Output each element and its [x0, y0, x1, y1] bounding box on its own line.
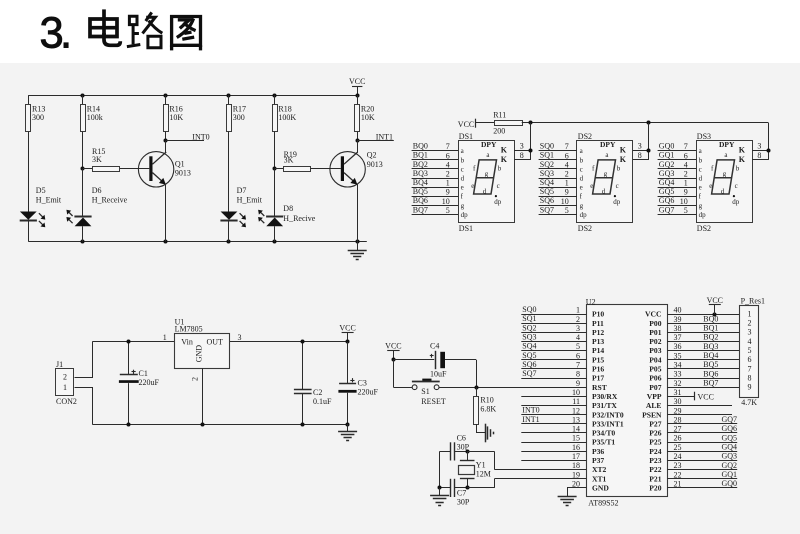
- svg-text:K: K: [739, 146, 746, 155]
- svg-text:7: 7: [748, 364, 752, 373]
- pin wire SQ1 pin 6 of DS2: [539, 159, 577, 161]
- svg-text:c: c: [699, 165, 702, 173]
- junction dots display rail: [529, 121, 533, 125]
- svg-text:R13: R13: [32, 104, 45, 113]
- svg-text:5: 5: [576, 342, 580, 351]
- svg-text:dp: dp: [732, 198, 740, 206]
- pin wires 3 8 of DS3: [752, 150, 768, 152]
- svg-text:SQ5: SQ5: [522, 351, 536, 360]
- pin wire GQ3 pin 2 of DS3: [658, 178, 696, 180]
- svg-text:e: e: [590, 182, 593, 190]
- svg-text:1: 1: [63, 383, 67, 392]
- svg-text:220uF: 220uF: [358, 387, 379, 396]
- svg-text:3K: 3K: [92, 155, 102, 164]
- node C6 junction: [466, 450, 470, 454]
- svg-text:C3: C3: [358, 378, 367, 387]
- svg-text:18: 18: [572, 461, 580, 470]
- svg-text:GQ3: GQ3: [659, 169, 675, 178]
- node RST junction: [475, 386, 479, 390]
- svg-text:30P: 30P: [457, 498, 470, 507]
- svg-text:DS1: DS1: [459, 132, 473, 141]
- svg-text:9: 9: [565, 188, 569, 197]
- svg-text:dp: dp: [699, 211, 707, 219]
- svg-text:INT0: INT0: [192, 132, 209, 141]
- svg-text:4: 4: [684, 160, 688, 169]
- svg-text:c: c: [616, 182, 619, 190]
- wire XT1 pin 19: [494, 478, 586, 480]
- wire vertical to rail of DS1: [530, 123, 532, 160]
- svg-text:6: 6: [748, 355, 752, 364]
- svg-text:BQ7: BQ7: [703, 378, 718, 387]
- capacitor C1: [128, 342, 130, 375]
- svg-text:P12: P12: [592, 328, 604, 337]
- svg-text:DPY: DPY: [481, 140, 497, 149]
- svg-text:5: 5: [565, 206, 569, 215]
- svg-text:2: 2: [684, 170, 688, 179]
- svg-text:3: 3: [748, 328, 752, 337]
- svg-text:BQ6: BQ6: [413, 196, 428, 205]
- photodiode D6: [74, 216, 91, 218]
- svg-text:Q2: Q2: [367, 151, 377, 160]
- connector J1 CON2: [56, 369, 74, 396]
- svg-text:24: 24: [674, 452, 682, 461]
- svg-text:d: d: [580, 175, 584, 183]
- wire VCC pin 40 to P_Res1: [667, 314, 740, 316]
- svg-text:31: 31: [674, 388, 682, 397]
- svg-text:BQ7: BQ7: [413, 205, 428, 214]
- svg-text:J1: J1: [56, 360, 63, 369]
- pin wire BQ0 pin 7 of DS1: [412, 150, 458, 152]
- svg-text:10: 10: [442, 197, 450, 206]
- svg-text:5: 5: [446, 206, 450, 215]
- resistor R18: [274, 95, 276, 104]
- svg-text:4.7K: 4.7K: [741, 398, 757, 407]
- wire RST pin 9: [476, 387, 586, 389]
- svg-text:1: 1: [684, 179, 688, 188]
- svg-text:g: g: [485, 170, 489, 178]
- svg-text:AT89S52: AT89S52: [588, 499, 618, 508]
- svg-text:BQ2: BQ2: [413, 160, 428, 169]
- svg-text:25: 25: [674, 443, 682, 452]
- pin wire BQ6 pin 10 of DS1: [412, 205, 458, 207]
- svg-text:GQ6: GQ6: [659, 196, 675, 205]
- svg-text:GQ0: GQ0: [721, 479, 737, 488]
- junction dots top rail: [81, 94, 85, 98]
- wires BQ bus pins 39-32: [667, 323, 740, 325]
- title hanzi tu: [172, 17, 201, 51]
- svg-text:8: 8: [576, 370, 580, 379]
- svg-text:SQ0: SQ0: [540, 142, 554, 151]
- svg-text:H_Recive: H_Recive: [283, 214, 315, 223]
- svg-text:BQ5: BQ5: [703, 360, 718, 369]
- svg-text:10uF: 10uF: [430, 370, 447, 379]
- title hanzi lu: [127, 12, 162, 47]
- svg-text:P24: P24: [649, 447, 661, 456]
- svg-text:K: K: [620, 146, 627, 155]
- svg-text:VCC: VCC: [458, 120, 474, 129]
- svg-text:SQ4: SQ4: [522, 342, 536, 351]
- svg-text:BQ4: BQ4: [703, 351, 718, 360]
- svg-text:RST: RST: [592, 383, 607, 392]
- svg-text:30: 30: [674, 397, 682, 406]
- svg-text:SQ7: SQ7: [522, 369, 536, 378]
- svg-text:BQ4: BQ4: [413, 178, 428, 187]
- svg-text:P06: P06: [649, 374, 661, 383]
- svg-text:SQ0: SQ0: [522, 305, 536, 314]
- pin wire BQ7 pin 5 of DS1: [412, 214, 458, 216]
- node R15 junction: [81, 167, 85, 171]
- svg-text:DPY: DPY: [600, 140, 616, 149]
- svg-text:12M: 12M: [476, 469, 491, 478]
- ground R10: [485, 424, 487, 443]
- svg-text:GQ0: GQ0: [659, 142, 675, 151]
- wire ALE pin 30: [667, 405, 732, 407]
- svg-text:g: g: [580, 202, 584, 210]
- svg-text:GQ5: GQ5: [721, 433, 737, 442]
- svg-text:GND: GND: [592, 483, 609, 492]
- svg-text:H_Emit: H_Emit: [237, 195, 263, 204]
- svg-text:D6: D6: [92, 186, 102, 195]
- resistor R20: [357, 95, 359, 104]
- svg-text:K: K: [501, 155, 508, 164]
- svg-text:37: 37: [674, 333, 682, 342]
- svg-text:GQ7: GQ7: [659, 205, 675, 214]
- svg-text:17: 17: [572, 452, 580, 461]
- svg-text:d: d: [699, 175, 703, 183]
- svg-text:P15: P15: [592, 355, 604, 364]
- wire vertical to rail of DS2: [648, 123, 650, 160]
- svg-text:ALE: ALE: [646, 401, 662, 410]
- svg-text:e: e: [709, 182, 712, 190]
- svg-text:b: b: [461, 156, 465, 164]
- svg-text:22: 22: [674, 470, 682, 479]
- svg-text:P21: P21: [649, 474, 661, 483]
- svg-text:SQ3: SQ3: [522, 332, 536, 341]
- svg-text:P36: P36: [592, 447, 604, 456]
- svg-text:P10: P10: [592, 310, 604, 319]
- svg-text:BQ6: BQ6: [703, 369, 718, 378]
- svg-text:P30/RX: P30/RX: [592, 392, 618, 401]
- svg-text:INT0: INT0: [522, 406, 539, 415]
- svg-text:b: b: [699, 156, 703, 164]
- pin wire SQ2 pin 4 of DS2: [539, 168, 577, 170]
- svg-text:D7: D7: [237, 186, 247, 195]
- svg-text:10: 10: [572, 388, 580, 397]
- pin wire BQ3 pin 2 of DS1: [412, 178, 458, 180]
- svg-text:GQ3: GQ3: [721, 452, 737, 461]
- svg-text:d: d: [602, 187, 606, 195]
- svg-text:4: 4: [748, 337, 752, 346]
- pin wire BQ1 pin 6 of DS1: [412, 159, 458, 161]
- svg-text:VPP: VPP: [647, 392, 662, 401]
- wires pins 14-17: [521, 432, 586, 434]
- svg-text:300: 300: [32, 113, 44, 122]
- svg-text:3: 3: [757, 142, 761, 151]
- svg-text:SQ2: SQ2: [522, 323, 536, 332]
- resistor R13: [28, 95, 30, 104]
- svg-text:P07: P07: [649, 383, 661, 392]
- svg-text:10: 10: [561, 197, 569, 206]
- svg-text:3: 3: [638, 142, 642, 151]
- svg-text:INT1: INT1: [522, 415, 539, 424]
- svg-text:8: 8: [757, 151, 761, 160]
- svg-text:P35/T1: P35/T1: [592, 438, 615, 447]
- svg-text:dp: dp: [613, 198, 621, 206]
- svg-text:XT1: XT1: [592, 474, 607, 483]
- svg-text:GQ7: GQ7: [721, 415, 737, 424]
- svg-text:d: d: [721, 187, 725, 195]
- svg-text:C1: C1: [139, 369, 148, 378]
- pin wire BQ5 pin 9 of DS1: [412, 196, 458, 198]
- svg-text:P32/INT0: P32/INT0: [592, 410, 624, 419]
- svg-text:S1: S1: [421, 387, 429, 396]
- digit segments of DS2: [593, 160, 616, 194]
- svg-text:P20: P20: [649, 483, 661, 492]
- wire J1 riser: [75, 342, 93, 378]
- svg-text:SQ2: SQ2: [540, 160, 554, 169]
- svg-text:P23: P23: [649, 456, 661, 465]
- svg-text:GQ6: GQ6: [721, 424, 737, 433]
- svg-text:VCC: VCC: [349, 77, 365, 86]
- resistor R10: [476, 387, 478, 396]
- node INT0: [164, 139, 168, 143]
- svg-text:H_Emit: H_Emit: [36, 195, 62, 204]
- svg-text:R10: R10: [480, 396, 493, 405]
- svg-text:OUT: OUT: [207, 337, 224, 346]
- svg-text:0.1uF: 0.1uF: [313, 397, 332, 406]
- svg-text:26: 26: [674, 434, 682, 443]
- switch S1 RESET: [393, 360, 395, 387]
- svg-text:39: 39: [674, 315, 682, 324]
- svg-text:GND: GND: [195, 345, 204, 363]
- svg-text:P03: P03: [649, 346, 661, 355]
- wire crystal left leg: [439, 451, 441, 488]
- svg-text:P34/T0: P34/T0: [592, 429, 615, 438]
- transistor Q1: [138, 152, 173, 187]
- wire display VCC rail: [522, 122, 769, 124]
- svg-text:K: K: [739, 155, 746, 164]
- svg-text:32: 32: [674, 379, 682, 388]
- ground power supply: [347, 424, 349, 431]
- 7-segment display DS2: [577, 141, 633, 223]
- svg-text:1: 1: [565, 179, 569, 188]
- MCU U2 box: [587, 305, 668, 497]
- svg-text:K: K: [501, 146, 508, 155]
- svg-text:c: c: [497, 182, 500, 190]
- svg-text:9: 9: [748, 383, 752, 392]
- svg-text:P13: P13: [592, 337, 604, 346]
- svg-text:Vin: Vin: [181, 337, 193, 346]
- wire top VCC rail: [28, 95, 357, 97]
- ground MCU: [567, 488, 569, 496]
- svg-text:GQ2: GQ2: [721, 461, 737, 470]
- capacitor C6: [440, 451, 450, 453]
- pin wire SQ5 pin 9 of DS2: [539, 196, 577, 198]
- svg-text:7: 7: [446, 142, 450, 151]
- svg-text:R14: R14: [87, 104, 100, 113]
- resistor R11: [495, 121, 523, 126]
- svg-text:1: 1: [163, 333, 167, 342]
- svg-text:P00: P00: [649, 319, 661, 328]
- svg-text:VCC: VCC: [707, 296, 723, 305]
- svg-text:6: 6: [684, 151, 688, 160]
- svg-text:P14: P14: [592, 346, 604, 355]
- svg-text:K: K: [620, 155, 627, 164]
- LED D5: [20, 212, 37, 220]
- svg-text:GQ4: GQ4: [721, 442, 737, 451]
- svg-text:9013: 9013: [175, 169, 191, 178]
- svg-text:P_Res1: P_Res1: [741, 297, 765, 306]
- pin wire SQ7 pin 5 of DS2: [539, 214, 577, 216]
- svg-text:g: g: [461, 202, 465, 210]
- svg-text:PSEN: PSEN: [642, 410, 662, 419]
- svg-text:1: 1: [576, 306, 580, 315]
- wire XT2 pin 18: [494, 469, 586, 471]
- wire GND pin 20: [568, 488, 587, 496]
- 7-segment display DS3: [697, 141, 753, 223]
- wires SQ bus to MCU: [521, 314, 586, 316]
- svg-text:D8: D8: [283, 204, 293, 213]
- svg-text:R18: R18: [278, 104, 291, 113]
- svg-text:R11: R11: [493, 110, 506, 119]
- svg-text:GQ5: GQ5: [659, 187, 675, 196]
- svg-text:R17: R17: [233, 104, 246, 113]
- svg-text:5: 5: [684, 206, 688, 215]
- svg-text:33: 33: [674, 370, 682, 379]
- svg-text:11: 11: [572, 397, 580, 406]
- svg-text:P17: P17: [592, 374, 604, 383]
- svg-text:P11: P11: [592, 319, 604, 328]
- svg-text:P33/INT1: P33/INT1: [592, 419, 624, 428]
- svg-text:BQ0: BQ0: [413, 142, 428, 151]
- wires pins 10 11: [521, 396, 586, 398]
- resistor R19: [275, 168, 284, 170]
- svg-text:3: 3: [576, 324, 580, 333]
- pin wire GQ1 pin 6 of DS3: [658, 159, 696, 161]
- svg-text:P02: P02: [649, 337, 661, 346]
- svg-text:R20: R20: [361, 104, 374, 113]
- svg-text:e: e: [471, 182, 474, 190]
- pin wires 3 8 of DS1: [514, 150, 531, 152]
- svg-text:9: 9: [446, 188, 450, 197]
- svg-text:b: b: [580, 156, 584, 164]
- svg-text:BQ1: BQ1: [703, 324, 718, 333]
- svg-text:SQ7: SQ7: [540, 205, 554, 214]
- resistor R17: [228, 95, 230, 104]
- svg-text:9013: 9013: [367, 160, 383, 169]
- svg-text:10: 10: [680, 197, 688, 206]
- wires INT0 INT1 to MCU: [521, 414, 586, 416]
- svg-text:100K: 100K: [278, 113, 296, 122]
- svg-text:2: 2: [565, 170, 569, 179]
- 7-segment display DS1: [459, 141, 515, 223]
- net VPP to VCC pin 31: [667, 396, 694, 398]
- svg-text:b: b: [498, 165, 502, 173]
- svg-text:P01: P01: [649, 328, 661, 337]
- svg-text:8: 8: [520, 151, 524, 160]
- svg-text:BQ1: BQ1: [413, 151, 428, 160]
- ground sensor circuit: [357, 242, 359, 251]
- svg-text:BQ3: BQ3: [413, 169, 428, 178]
- svg-text:c: c: [735, 182, 738, 190]
- svg-text:BQ5: BQ5: [413, 187, 428, 196]
- svg-text:7: 7: [565, 142, 569, 151]
- svg-text:g: g: [699, 202, 703, 210]
- svg-text:Y1: Y1: [476, 460, 486, 469]
- svg-text:12: 12: [572, 406, 580, 415]
- svg-text:DS3: DS3: [697, 132, 711, 141]
- svg-text:e: e: [461, 184, 464, 192]
- svg-text:2: 2: [63, 373, 67, 382]
- svg-text:15: 15: [572, 434, 580, 443]
- svg-text:9: 9: [576, 379, 580, 388]
- pin wire GQ7 pin 5 of DS3: [658, 214, 696, 216]
- digit segments of DS1: [474, 160, 497, 194]
- resistor R15: [83, 168, 93, 170]
- pin wire BQ4 pin 1 of DS1: [412, 187, 458, 189]
- svg-text:GQ4: GQ4: [659, 178, 675, 187]
- svg-text:100k: 100k: [87, 113, 103, 122]
- svg-text:RESET: RESET: [421, 397, 446, 406]
- crystal Y1: [467, 451, 469, 460]
- svg-text:C4: C4: [430, 342, 439, 351]
- svg-text:b: b: [736, 165, 740, 173]
- wire PSEN pin 29: [667, 414, 732, 416]
- svg-text:SQ5: SQ5: [540, 187, 554, 196]
- svg-text:DS2: DS2: [578, 224, 592, 233]
- svg-text:200: 200: [493, 126, 505, 135]
- svg-text:2: 2: [576, 315, 580, 324]
- svg-text:P37: P37: [592, 456, 604, 465]
- pin wire GQ6 pin 10 of DS3: [658, 205, 696, 207]
- svg-text:9: 9: [684, 188, 688, 197]
- pin wire SQ0 pin 7 of DS2: [539, 150, 577, 152]
- svg-text:VCC: VCC: [645, 310, 661, 319]
- svg-text:d: d: [483, 187, 487, 195]
- svg-text:DPY: DPY: [719, 140, 735, 149]
- transistor Q2: [330, 152, 365, 187]
- svg-text:XT2: XT2: [592, 465, 607, 474]
- svg-text:VCC: VCC: [698, 392, 714, 401]
- svg-text:D5: D5: [36, 186, 46, 195]
- node C7 junction: [466, 486, 470, 490]
- svg-text:.: .: [60, 10, 72, 58]
- resistor network P_Res1: [740, 306, 759, 398]
- svg-text:GQ1: GQ1: [721, 470, 737, 479]
- svg-text:4: 4: [446, 160, 450, 169]
- svg-text:P22: P22: [649, 465, 661, 474]
- svg-text:38: 38: [674, 324, 682, 333]
- svg-text:1: 1: [446, 179, 450, 188]
- node INT1: [356, 139, 360, 143]
- svg-text:2: 2: [190, 377, 199, 381]
- svg-text:U2: U2: [586, 297, 596, 306]
- svg-text:3: 3: [520, 142, 524, 151]
- svg-text:DS2: DS2: [697, 224, 711, 233]
- svg-text:BQ0: BQ0: [703, 314, 718, 323]
- pin wire GQ0 pin 7 of DS3: [658, 150, 696, 152]
- svg-text:C6: C6: [457, 434, 466, 443]
- svg-text:R16: R16: [169, 104, 182, 113]
- svg-text:P04: P04: [649, 355, 661, 364]
- svg-text:DS1: DS1: [459, 224, 473, 233]
- capacitor C3: [346, 340, 350, 344]
- pin wire GQ5 pin 9 of DS3: [658, 196, 696, 198]
- svg-text:16: 16: [572, 443, 580, 452]
- wire bottom GND rail: [28, 241, 367, 243]
- wires GQ bus pins 28-21: [667, 423, 737, 425]
- svg-text:7: 7: [684, 142, 688, 151]
